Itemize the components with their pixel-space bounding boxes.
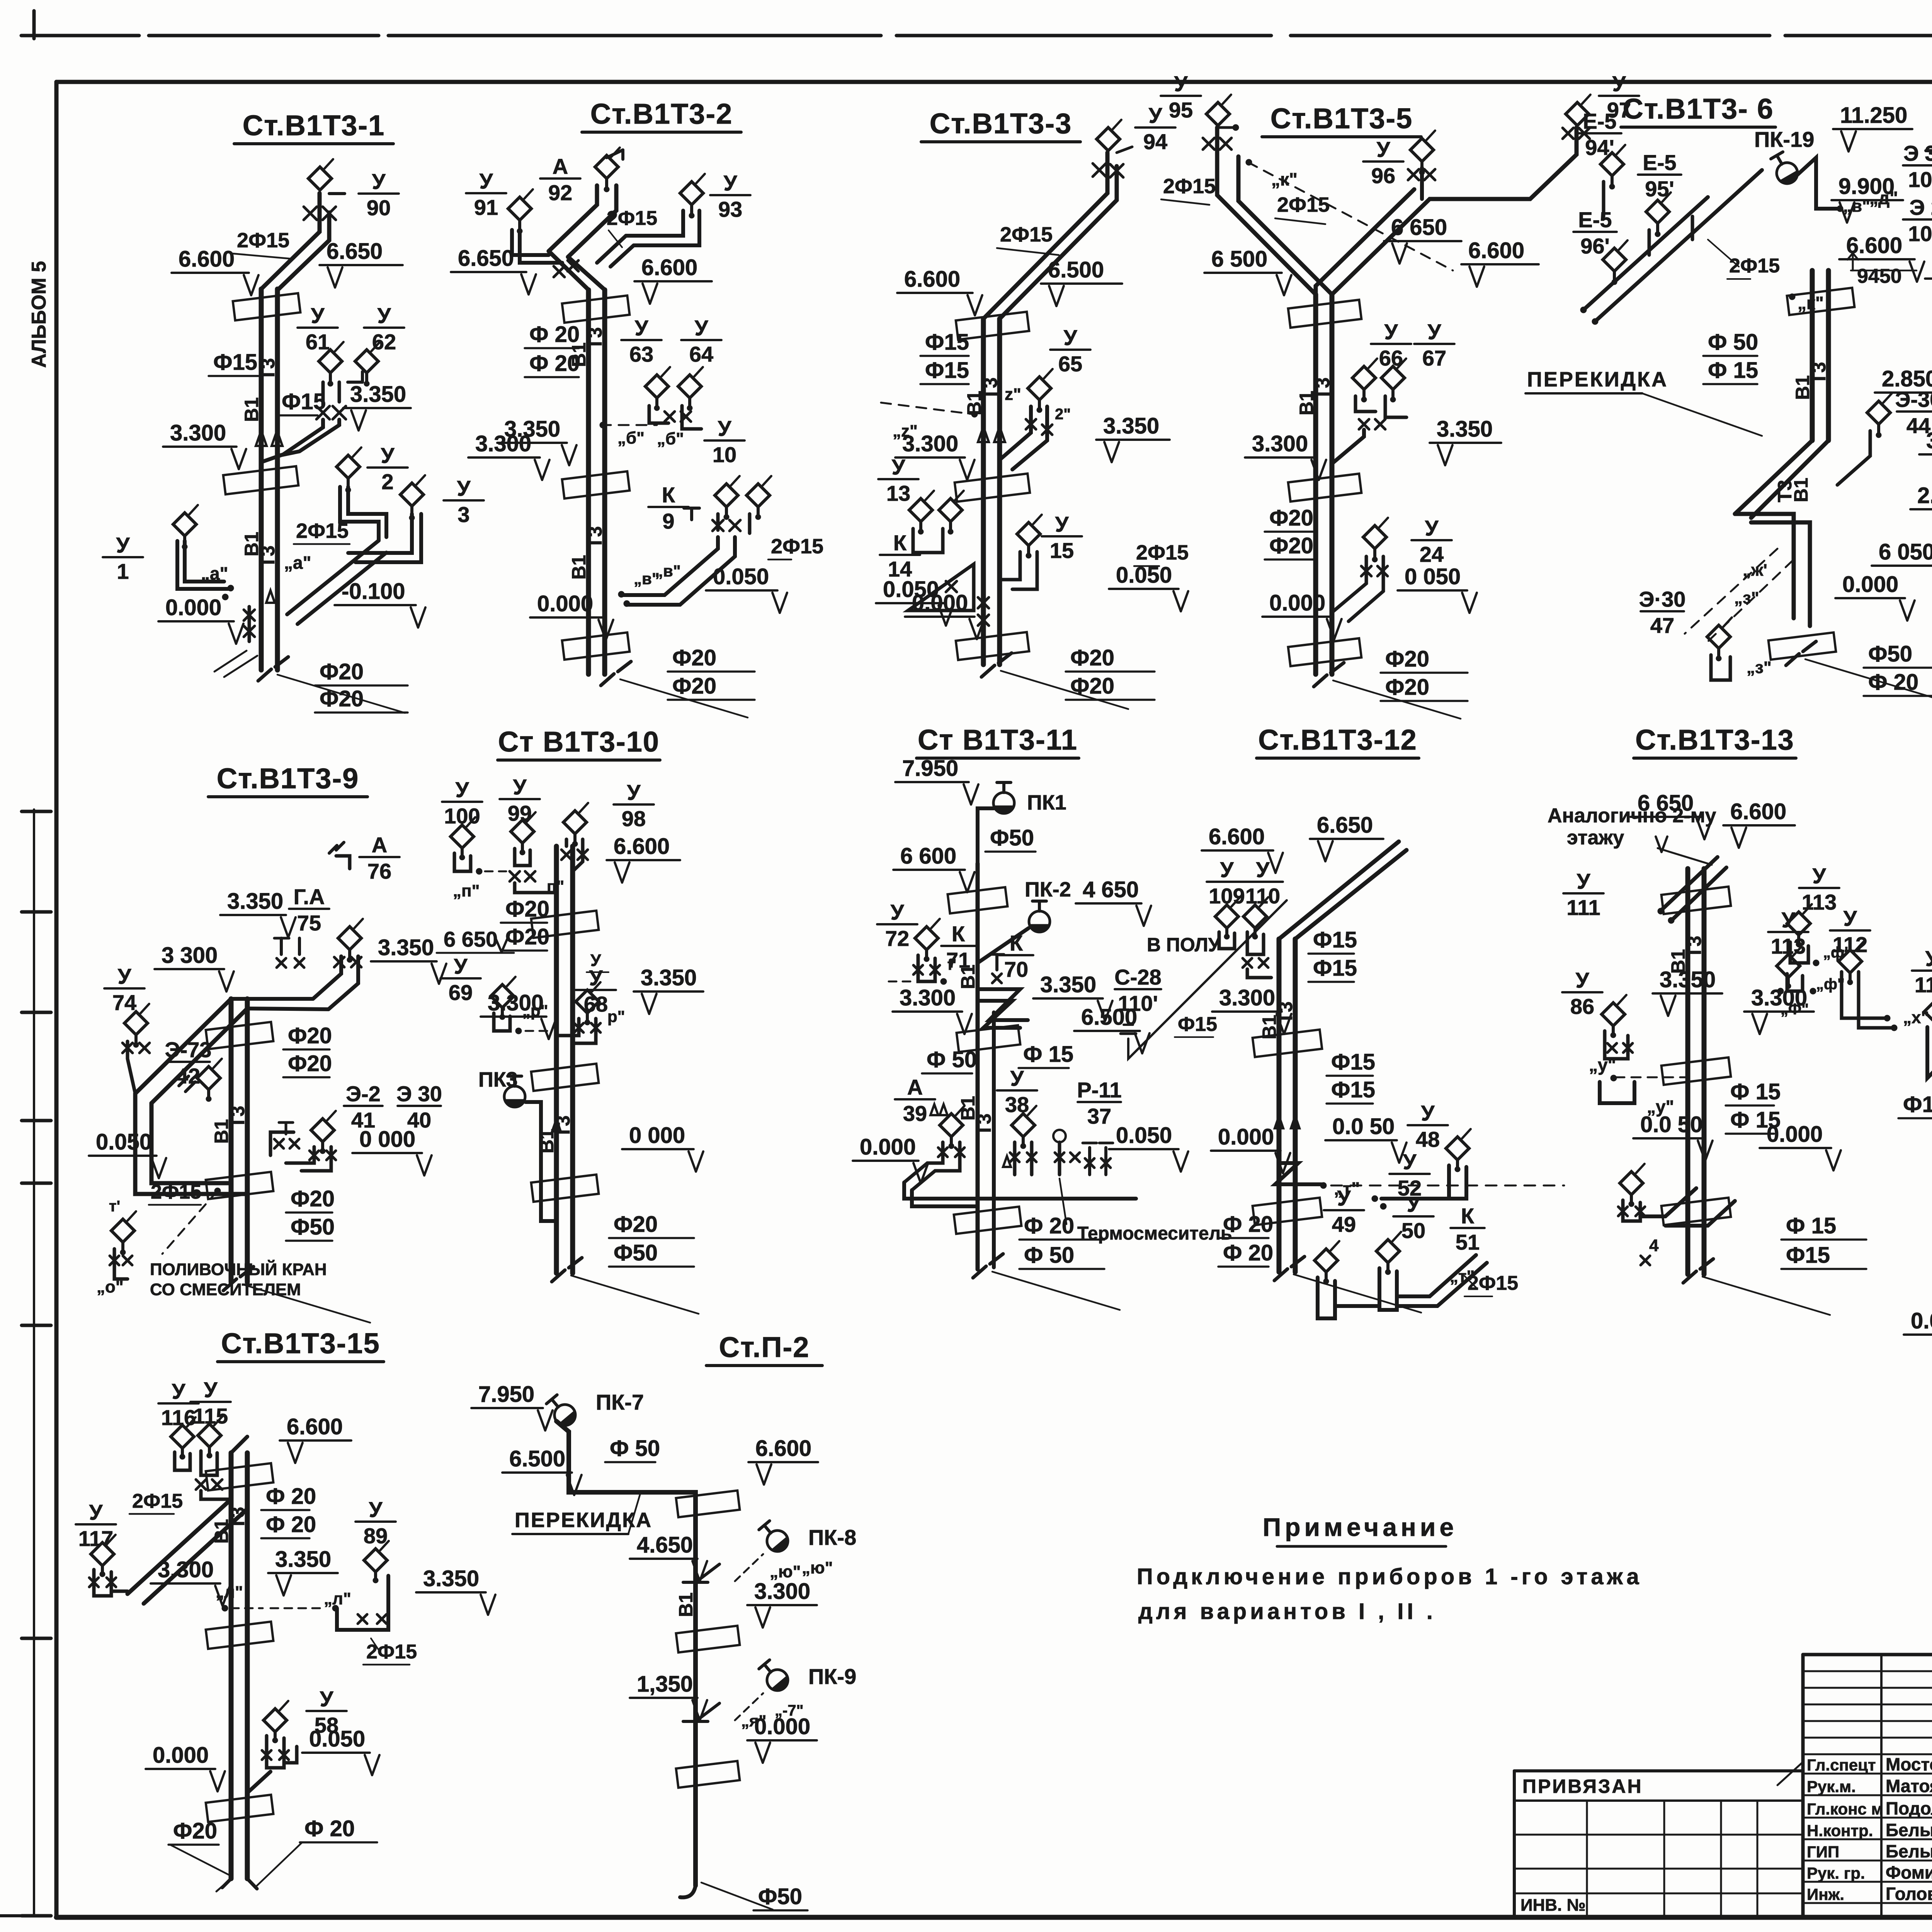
- svg-text:z": z": [1005, 385, 1021, 404]
- svg-text:Ст.В1Т3-15: Ст.В1Т3-15: [221, 1327, 380, 1359]
- svg-text:У: У: [320, 1687, 334, 1711]
- svg-text:этажу: этажу: [1567, 827, 1624, 849]
- svg-text:ПК-19: ПК-19: [1754, 127, 1814, 151]
- svg-text:Э-73: Э-73: [165, 1037, 212, 1062]
- svg-text:Гл.спецт: Гл.спецт: [1807, 1756, 1876, 1774]
- svg-text:50: 50: [1401, 1218, 1425, 1243]
- svg-text:Ф 15: Ф 15: [1730, 1079, 1781, 1104]
- svg-text:Ф 20: Ф 20: [266, 1512, 316, 1537]
- svg-text:„б": „б": [657, 429, 684, 448]
- svg-text:У: У: [513, 775, 527, 799]
- svg-text:„о": „о": [97, 1277, 124, 1296]
- svg-text:У: У: [1844, 906, 1857, 930]
- svg-text:96: 96: [1371, 163, 1395, 188]
- svg-text:К: К: [893, 531, 907, 555]
- svg-text:9450: 9450: [1857, 265, 1902, 287]
- svg-text:89: 89: [364, 1524, 388, 1548]
- svg-text:Т3: Т3: [227, 1106, 248, 1128]
- svg-text:Ст В1Т3-10: Ст В1Т3-10: [498, 726, 660, 758]
- svg-text:Ф15: Ф15: [1313, 956, 1357, 981]
- svg-text:Мостовой: Мостовой: [1886, 1754, 1932, 1774]
- svg-text:ПК-2: ПК-2: [1025, 878, 1071, 901]
- svg-text:6.600: 6.600: [755, 1436, 811, 1461]
- svg-text:Ф20: Ф20: [288, 1023, 332, 1048]
- svg-text:2Ф15: 2Ф15: [1000, 223, 1053, 246]
- svg-text:0.000: 0.000: [153, 1743, 209, 1768]
- svg-text:2Ф15: 2Ф15: [132, 1490, 183, 1512]
- svg-text:Ф 50: Ф 50: [1024, 1243, 1074, 1268]
- svg-text:Ф 20: Ф 20: [304, 1816, 355, 1841]
- svg-text:98: 98: [622, 806, 646, 831]
- svg-text:У: У: [116, 533, 130, 557]
- svg-text:Ф15: Ф15: [213, 350, 257, 375]
- svg-text:Термосмеситель: Термосмеситель: [1077, 1223, 1232, 1244]
- svg-text:96': 96': [1580, 234, 1610, 258]
- svg-text:69: 69: [449, 980, 473, 1005]
- svg-text:У: У: [1337, 1186, 1351, 1210]
- svg-text:У: У: [1149, 103, 1163, 128]
- svg-text:37: 37: [1087, 1104, 1111, 1128]
- svg-text:Т3: Т3: [1275, 1002, 1296, 1024]
- svg-text:2Ф15: 2Ф15: [607, 207, 657, 230]
- svg-text:Е-5: Е-5: [1643, 150, 1676, 175]
- svg-text:0 000: 0 000: [629, 1123, 685, 1148]
- svg-text:У: У: [1425, 516, 1439, 540]
- svg-text:У: У: [1384, 320, 1398, 344]
- svg-text:6.600: 6.600: [904, 267, 960, 292]
- svg-text:У: У: [627, 780, 641, 804]
- svg-text:У: У: [89, 1500, 103, 1524]
- svg-text:Ст.В1Т3-13: Ст.В1Т3-13: [1635, 724, 1794, 756]
- svg-text:9: 9: [662, 509, 674, 533]
- svg-text:f': f': [947, 956, 956, 973]
- svg-text:Белышева: Белышева: [1886, 1820, 1932, 1840]
- svg-text:Э-30: Э-30: [1895, 387, 1932, 412]
- svg-text:„в": „в": [1843, 197, 1870, 216]
- svg-text:АЛЬБОМ 5: АЛЬБОМ 5: [28, 261, 50, 368]
- svg-text:К: К: [1010, 931, 1023, 955]
- svg-text:Э 30: Э 30: [396, 1082, 442, 1106]
- svg-text:Ф20: Ф20: [173, 1818, 217, 1844]
- svg-text:Т3: Т3: [1312, 378, 1333, 400]
- svg-text:У: У: [1925, 946, 1932, 971]
- svg-text:49: 49: [1332, 1212, 1356, 1236]
- svg-text:Ст В1Т3-11: Ст В1Т3-11: [918, 724, 1078, 756]
- svg-text:Инж.: Инж.: [1807, 1885, 1844, 1903]
- svg-text:Ф20: Ф20: [1070, 645, 1114, 670]
- svg-text:2Ф15: 2Ф15: [1277, 193, 1330, 216]
- svg-text:6.600: 6.600: [1468, 238, 1524, 263]
- svg-text:3.300: 3.300: [900, 985, 956, 1010]
- svg-text:Ф 20: Ф 20: [1223, 1240, 1273, 1265]
- svg-text:65: 65: [1058, 352, 1082, 376]
- svg-text:У: У: [1612, 71, 1626, 96]
- svg-text:Н.контр.: Н.контр.: [1807, 1821, 1873, 1840]
- svg-text:В ПОЛУ: В ПОЛУ: [1147, 934, 1221, 956]
- svg-text:Ст.В1Т3-12: Ст.В1Т3-12: [1258, 724, 1417, 756]
- svg-text:2Ф15: 2Ф15: [1729, 255, 1780, 277]
- svg-text:93: 93: [718, 197, 742, 221]
- svg-text:Ф50: Ф50: [758, 1884, 802, 1909]
- svg-text:У: У: [1403, 1150, 1417, 1174]
- svg-text:Ф20: Ф20: [320, 659, 364, 684]
- svg-text:У: У: [892, 455, 906, 479]
- svg-text:У: У: [454, 954, 468, 978]
- svg-text:„к": „к": [1271, 169, 1298, 189]
- svg-text:108: 108: [1908, 221, 1932, 246]
- svg-text:6.500: 6.500: [509, 1446, 565, 1471]
- svg-text:Ф20: Ф20: [672, 673, 716, 699]
- svg-text:У: У: [1576, 968, 1590, 992]
- svg-text:Ф15: Ф15: [1786, 1243, 1830, 1268]
- svg-text:А: А: [372, 833, 387, 857]
- svg-text:61: 61: [306, 330, 330, 354]
- svg-text:В1: В1: [957, 964, 979, 989]
- svg-text:Подольский: Подольский: [1886, 1798, 1932, 1818]
- svg-text:В1: В1: [568, 555, 590, 580]
- svg-text:38: 38: [1005, 1092, 1029, 1117]
- svg-text:Е-5: Е-5: [1583, 109, 1616, 133]
- svg-text:0 050: 0 050: [1405, 564, 1461, 589]
- svg-text:3.300: 3.300: [902, 431, 958, 456]
- svg-text:Ф50: Ф50: [614, 1240, 658, 1265]
- svg-text:У: У: [204, 1378, 218, 1402]
- svg-text:6.600: 6.600: [1209, 824, 1265, 849]
- svg-text:116: 116: [161, 1405, 196, 1430]
- svg-text:„ю": „ю": [770, 1562, 801, 1581]
- svg-text:2Ф15: 2Ф15: [296, 519, 349, 543]
- svg-text:2Ф15: 2Ф15: [771, 535, 823, 558]
- svg-text:63: 63: [629, 342, 653, 366]
- svg-text:6.600: 6.600: [1846, 233, 1902, 258]
- svg-text:4 650: 4 650: [1083, 877, 1139, 902]
- svg-text:0 000: 0 000: [359, 1127, 415, 1152]
- svg-text:У: У: [1256, 857, 1270, 882]
- svg-text:Ф20: Ф20: [672, 645, 716, 670]
- svg-text:3: 3: [457, 502, 469, 527]
- svg-text:111: 111: [1566, 895, 1600, 920]
- svg-text:94: 94: [1143, 129, 1167, 154]
- svg-text:Э-2: Э-2: [346, 1082, 381, 1106]
- svg-text:0.000: 0.000: [1269, 590, 1325, 616]
- svg-text:„п": „п": [453, 881, 480, 900]
- svg-text:ПК1: ПК1: [1027, 791, 1066, 814]
- svg-text:Э·30: Э·30: [1639, 587, 1686, 611]
- svg-text:п": п": [547, 877, 564, 895]
- svg-text:т': т': [109, 1198, 120, 1215]
- svg-text:6.600: 6.600: [641, 255, 697, 280]
- svg-text:Ф15: Ф15: [1331, 1049, 1375, 1075]
- svg-text:ПК-9: ПК-9: [808, 1664, 856, 1689]
- svg-text:0.050: 0.050: [1116, 1123, 1172, 1148]
- svg-text:А: А: [553, 154, 568, 179]
- svg-text:„ж': „ж': [1743, 561, 1767, 580]
- svg-text:У: У: [1577, 869, 1591, 893]
- svg-text:70: 70: [1004, 957, 1028, 981]
- svg-text:0.050: 0.050: [96, 1129, 152, 1155]
- svg-text:Ф15: Ф15: [1178, 1013, 1217, 1036]
- svg-text:3.300: 3.300: [158, 1557, 214, 1582]
- svg-text:„л": „л": [216, 1583, 243, 1602]
- svg-text:Ф20: Ф20: [1070, 673, 1114, 699]
- svg-text:51: 51: [1456, 1230, 1480, 1254]
- svg-text:0.000: 0.000: [912, 590, 968, 616]
- svg-text:„б": „б": [617, 429, 645, 447]
- svg-text:3.300: 3.300: [754, 1579, 810, 1604]
- svg-text:Ф50: Ф50: [291, 1214, 335, 1240]
- svg-text:Т3: Т3: [584, 327, 606, 350]
- svg-text:3.350: 3.350: [378, 935, 434, 960]
- svg-text:86: 86: [1570, 994, 1594, 1019]
- svg-text:62: 62: [372, 330, 396, 354]
- svg-text:Э 2: Э 2: [1910, 195, 1932, 219]
- svg-text:6.600: 6.600: [179, 247, 235, 272]
- svg-text:„з": „з": [1734, 588, 1759, 607]
- svg-text:3.300: 3.300: [1926, 428, 1932, 453]
- svg-text:Подключение приборов 1 -го: Подключение приборов 1 -го этажа: [1137, 1564, 1643, 1589]
- svg-text:0.0 50: 0.0 50: [1640, 1112, 1702, 1137]
- svg-text:Ст.В1Т3-3: Ст.В1Т3-3: [930, 107, 1072, 139]
- svg-text:Ф20: Ф20: [1385, 646, 1429, 672]
- svg-text:4.650: 4.650: [637, 1532, 693, 1558]
- svg-text:Г.А: Г.А: [294, 884, 325, 909]
- svg-text:2": 2": [1055, 406, 1071, 423]
- svg-text:Ф20: Ф20: [1385, 675, 1429, 700]
- svg-text:3.350: 3.350: [1040, 972, 1096, 997]
- svg-text:У: У: [372, 169, 386, 194]
- svg-text:В1: В1: [675, 1592, 697, 1617]
- svg-text:У: У: [1055, 512, 1069, 536]
- svg-text:3.300: 3.300: [1219, 985, 1275, 1010]
- svg-text:3.350: 3.350: [1437, 417, 1493, 442]
- svg-text:В1: В1: [1790, 478, 1812, 502]
- svg-text:„а": „а": [284, 553, 311, 573]
- svg-text:Ф20: Ф20: [1269, 505, 1313, 531]
- svg-text:Ф 15: Ф 15: [1023, 1042, 1073, 1067]
- svg-text:0.000: 0.000: [1218, 1124, 1274, 1150]
- svg-text:6.500: 6.500: [1081, 1005, 1137, 1030]
- svg-text:9.900: 9.900: [1838, 174, 1895, 199]
- svg-text:Ф 50: Ф 50: [610, 1436, 660, 1461]
- svg-text:„в": „в": [655, 562, 681, 580]
- svg-text:У: У: [635, 316, 649, 340]
- svg-text:У: У: [1407, 1192, 1421, 1216]
- svg-text:0.000: 0.000: [1767, 1122, 1823, 1147]
- svg-text:У: У: [172, 1379, 186, 1403]
- svg-text:Ф15: Ф15: [925, 358, 969, 383]
- svg-text:Ф 15: Ф 15: [1786, 1213, 1836, 1238]
- svg-text:92: 92: [548, 180, 572, 205]
- svg-text:6.500: 6.500: [1048, 257, 1104, 282]
- svg-text:3.350: 3.350: [350, 382, 406, 407]
- svg-text:Ф20: Ф20: [505, 924, 549, 949]
- svg-text:6.600: 6.600: [1730, 799, 1786, 824]
- svg-text:К: К: [952, 922, 965, 946]
- svg-text:У: У: [311, 303, 325, 328]
- svg-text:Т3: Т3: [584, 526, 606, 549]
- svg-text:75: 75: [297, 911, 321, 935]
- svg-text:Ф 20: Ф 20: [1868, 670, 1918, 695]
- svg-text:Ф50: Ф50: [990, 825, 1034, 850]
- svg-text:У: У: [369, 1497, 383, 1522]
- svg-text:Рук.м.: Рук.м.: [1807, 1777, 1856, 1796]
- svg-text:2Ф15: 2Ф15: [151, 1181, 201, 1203]
- svg-text:„л": „л": [324, 1589, 351, 1608]
- svg-text:13: 13: [886, 481, 910, 505]
- svg-text:У: У: [724, 171, 738, 195]
- svg-text:3.300: 3.300: [475, 431, 531, 456]
- svg-text:„ю": „ю": [802, 1558, 833, 1577]
- svg-text:0.000: 0.000: [165, 595, 221, 620]
- svg-text:С-28: С-28: [1114, 965, 1161, 989]
- svg-text:24: 24: [1420, 542, 1444, 566]
- svg-text:3.350: 3.350: [1660, 967, 1716, 992]
- svg-text:Ф20: Ф20: [291, 1186, 335, 1211]
- svg-text:Ст.В1Т3- 6: Ст.В1Т3- 6: [1622, 93, 1774, 125]
- svg-text:3.350: 3.350: [1103, 413, 1159, 439]
- svg-text:95: 95: [1169, 98, 1193, 122]
- svg-text:Голова: Голова: [1886, 1884, 1932, 1904]
- svg-text:Ф 50: Ф 50: [1708, 330, 1758, 355]
- svg-text:0.050: 0.050: [1911, 1308, 1932, 1333]
- svg-text:6.650: 6.650: [327, 239, 383, 264]
- svg-text:У: У: [456, 777, 469, 802]
- svg-text:Ф15: Ф15: [1331, 1077, 1375, 1102]
- svg-text:У: У: [1220, 857, 1234, 882]
- svg-text:Ф20: Ф20: [1269, 533, 1313, 558]
- svg-text:6.650: 6.650: [458, 246, 514, 271]
- svg-text:3 300: 3 300: [162, 943, 218, 968]
- svg-text:У: У: [480, 169, 493, 193]
- svg-text:-0.100: -0.100: [342, 579, 405, 604]
- svg-text:2: 2: [381, 469, 393, 494]
- svg-text:Ф 20: Ф 20: [1024, 1213, 1074, 1238]
- svg-text:6 650: 6 650: [444, 927, 498, 951]
- svg-text:Т3: Т3: [1808, 362, 1830, 384]
- svg-text:6.600: 6.600: [614, 834, 670, 859]
- svg-text:У: У: [378, 303, 391, 328]
- svg-text:У: У: [457, 476, 471, 500]
- svg-text:0.000: 0.000: [537, 591, 593, 616]
- svg-text:2Ф15: 2Ф15: [1163, 175, 1216, 198]
- svg-text:76: 76: [367, 859, 391, 883]
- svg-text:48: 48: [1416, 1127, 1440, 1151]
- svg-text:Ст.В1Т3-9: Ст.В1Т3-9: [217, 762, 359, 794]
- svg-text:К: К: [1461, 1204, 1475, 1228]
- svg-text:6 650: 6 650: [1391, 215, 1447, 240]
- svg-text:0.0 50: 0.0 50: [1332, 1114, 1395, 1139]
- svg-text:3.350: 3.350: [641, 965, 697, 990]
- svg-text:3.350: 3.350: [275, 1547, 331, 1572]
- svg-text:Рук. гр.: Рук. гр.: [1807, 1864, 1865, 1882]
- svg-text:Ф 20: Ф 20: [266, 1484, 316, 1509]
- svg-text:Гл.конс м: Гл.конс м: [1807, 1800, 1883, 1818]
- svg-text:Ф20: Ф20: [505, 896, 549, 922]
- svg-text:Ф15: Ф15: [1313, 927, 1357, 952]
- svg-text:Э 30: Э 30: [1903, 141, 1932, 165]
- svg-text:6.600: 6.600: [287, 1414, 343, 1439]
- svg-text:Фомичев: Фомичев: [1886, 1862, 1932, 1883]
- svg-text:0.000: 0.000: [860, 1134, 916, 1160]
- svg-text:114: 114: [1915, 973, 1932, 997]
- svg-text:Ф50: Ф50: [1868, 641, 1912, 667]
- svg-text:95': 95': [1645, 177, 1674, 201]
- svg-text:ПЕРЕКИДКА: ПЕРЕКИДКА: [1527, 368, 1668, 391]
- svg-text:1,350: 1,350: [637, 1672, 693, 1697]
- svg-text:10: 10: [713, 442, 736, 467]
- svg-text:„у": „у": [1589, 1055, 1616, 1075]
- svg-text:У: У: [118, 964, 132, 988]
- svg-text:В1: В1: [241, 397, 262, 422]
- svg-text:У: У: [381, 443, 395, 468]
- svg-text:3.350: 3.350: [227, 889, 283, 914]
- svg-text:90: 90: [367, 196, 391, 220]
- svg-text:Примечание: Примечание: [1263, 1513, 1458, 1541]
- svg-text:У: У: [1782, 908, 1796, 932]
- svg-text:У: У: [1428, 320, 1442, 344]
- svg-text:Ф15: Ф15: [1903, 1092, 1932, 1117]
- svg-text:0.050: 0.050: [309, 1726, 365, 1752]
- svg-text:72: 72: [885, 926, 909, 951]
- svg-text:6 050: 6 050: [1879, 539, 1932, 565]
- svg-text:0.000: 0.000: [754, 1714, 810, 1739]
- svg-text:74: 74: [112, 990, 136, 1015]
- svg-text:У: У: [1813, 864, 1827, 888]
- svg-text:У: У: [1421, 1101, 1435, 1125]
- svg-text:А: А: [907, 1075, 923, 1099]
- svg-text:7.950: 7.950: [902, 756, 958, 781]
- svg-text:ПРИВЯЗАН: ПРИВЯЗАН: [1522, 1776, 1643, 1797]
- svg-text:Т3: Т3: [980, 378, 1001, 400]
- svg-text:Матоян: Матоян: [1886, 1776, 1932, 1796]
- svg-text:0.050: 0.050: [1116, 563, 1172, 588]
- svg-text:Белышева: Белышева: [1886, 1841, 1932, 1861]
- svg-text:Ф 20: Ф 20: [1223, 1212, 1273, 1237]
- svg-text:Ф 50: Ф 50: [927, 1047, 977, 1072]
- svg-text:ПК-8: ПК-8: [808, 1525, 856, 1549]
- svg-text:У: У: [891, 900, 905, 924]
- svg-text:6 500: 6 500: [1211, 247, 1267, 272]
- svg-text:„Ф": „Ф": [1781, 1001, 1809, 1018]
- svg-text:Ф20: Ф20: [288, 1051, 332, 1076]
- svg-text:Т3: Т3: [1684, 936, 1705, 958]
- svg-text:В1: В1: [241, 532, 262, 556]
- svg-text:0.050: 0.050: [713, 564, 769, 589]
- svg-text:1: 1: [117, 559, 129, 583]
- svg-text:107: 107: [1908, 167, 1932, 192]
- svg-text:У: У: [718, 416, 732, 440]
- svg-text:2Ф15: 2Ф15: [237, 229, 289, 252]
- svg-text:Ст.П-2: Ст.П-2: [719, 1331, 810, 1363]
- svg-text:6.650: 6.650: [1317, 813, 1373, 838]
- svg-text:ИНВ. №: ИНВ. №: [1520, 1896, 1586, 1915]
- svg-text:2Ф15: 2Ф15: [1136, 541, 1189, 564]
- svg-text:Т3: Т3: [973, 1114, 995, 1136]
- svg-text:6 650: 6 650: [1638, 791, 1694, 816]
- svg-text:3.300: 3.300: [488, 990, 544, 1015]
- svg-text:15: 15: [1050, 538, 1074, 563]
- svg-text:64: 64: [689, 342, 713, 366]
- svg-text:39: 39: [903, 1101, 927, 1126]
- svg-text:Т3: Т3: [227, 1507, 248, 1529]
- svg-text:Ф20: Ф20: [614, 1212, 658, 1237]
- svg-text:Е-5: Е-5: [1578, 207, 1612, 232]
- svg-text:ПОЛИВОЧНЫЙ КРАН: ПОЛИВОЧНЫЙ КРАН: [150, 1259, 327, 1279]
- svg-text:Р-11: Р-11: [1077, 1078, 1121, 1102]
- svg-text:3.350: 3.350: [423, 1566, 479, 1591]
- svg-text:3.300: 3.300: [1252, 431, 1308, 456]
- svg-text:„з": „з": [1747, 658, 1772, 677]
